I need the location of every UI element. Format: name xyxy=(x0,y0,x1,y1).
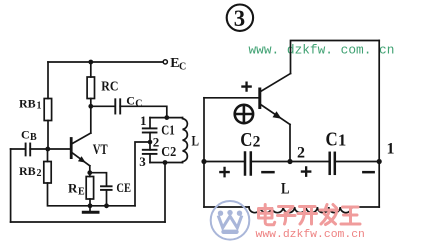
node 1 junction xyxy=(377,159,382,164)
base bar xyxy=(258,89,261,108)
label CE xyxy=(116,180,131,195)
emitter diagonal xyxy=(72,153,90,166)
collector diagonal xyxy=(261,74,291,92)
wire RB1 top lead xyxy=(47,62,49,99)
wire bottom outer riser to tank xyxy=(164,163,166,223)
svg-text:C2: C2 xyxy=(161,145,176,160)
svg-text:C: C xyxy=(126,94,135,108)
svg-text:R: R xyxy=(68,181,78,196)
label EC xyxy=(170,56,186,73)
collector diagonal xyxy=(72,133,91,144)
svg-text:L: L xyxy=(192,133,200,149)
char kai xyxy=(298,207,317,225)
capacitor CC xyxy=(115,99,120,113)
svg-text:3: 3 xyxy=(234,6,245,31)
svg-text:2: 2 xyxy=(253,133,261,150)
wire top supply rail (left circuit) xyxy=(48,61,163,63)
wire cap row left xyxy=(204,161,244,163)
marker circled 3 xyxy=(227,5,253,31)
wire stack top lead xyxy=(149,118,151,128)
label - polarity C1 right xyxy=(362,171,375,174)
svg-text:1: 1 xyxy=(338,131,346,150)
label C1 (right) xyxy=(326,129,347,151)
node 2 junction xyxy=(287,159,292,164)
node junction row left xyxy=(201,159,206,164)
svg-text:C: C xyxy=(179,62,186,73)
capacitor C1 (left tank) xyxy=(143,128,157,132)
wire RB2 bottom lead xyxy=(48,183,136,206)
wire CB left lead to left edge xyxy=(11,148,26,150)
node junction top rail / RC xyxy=(88,60,93,65)
svg-text:C: C xyxy=(326,129,338,151)
inductor L (right) xyxy=(249,207,352,213)
svg-text:C: C xyxy=(21,128,30,142)
svg-text:1: 1 xyxy=(140,113,147,128)
wire stack bottom lead xyxy=(149,154,151,163)
resistor RE xyxy=(86,177,93,200)
resistor RC xyxy=(87,77,94,99)
label 3 (left tank) xyxy=(139,154,146,169)
label C1 (left tank) xyxy=(161,124,175,139)
wire inductor row right xyxy=(352,206,380,208)
wire top rail (right circuit) xyxy=(291,41,380,74)
transistor (right) xyxy=(260,74,291,162)
label L (right) xyxy=(281,180,290,197)
wire tank top xyxy=(150,117,183,119)
svg-text:www.dzkfw.com.cn: www.dzkfw.com.cn xyxy=(256,229,365,241)
char zi xyxy=(278,207,296,225)
label RB1 xyxy=(19,97,42,112)
label RE xyxy=(68,181,85,198)
svg-text:2: 2 xyxy=(37,168,42,179)
svg-text:RB: RB xyxy=(19,97,36,111)
symbol circled plus xyxy=(235,105,253,123)
emitter diagonal xyxy=(261,105,290,125)
node junction RE bottom xyxy=(88,203,93,208)
label 1 (right) xyxy=(387,141,395,158)
label CB xyxy=(21,128,37,144)
capacitor C2 (right) xyxy=(245,153,251,175)
label RB2 xyxy=(19,164,42,179)
wire RC bottom / collector lead xyxy=(90,99,92,134)
capacitor C1 (right) xyxy=(330,153,335,174)
svg-text:1: 1 xyxy=(387,141,395,158)
wire cap row middle xyxy=(251,161,330,163)
watermark red chinese characters xyxy=(259,205,361,225)
svg-text:C: C xyxy=(240,129,252,151)
node junction CE bottom xyxy=(104,203,109,208)
svg-text:B: B xyxy=(30,132,37,143)
label C2 (left tank) xyxy=(161,145,176,160)
node junction collector/CC xyxy=(88,104,93,109)
label + polarity C2 left xyxy=(219,167,230,178)
wire RC top lead xyxy=(90,62,92,77)
wire CB right lead / base row xyxy=(30,148,70,150)
label CC xyxy=(126,94,142,110)
wire right edge (right circuit) xyxy=(378,41,380,208)
label C2 (right) xyxy=(240,129,260,151)
svg-text:www. dzkfw. com. cn: www. dzkfw. com. cn xyxy=(249,43,395,58)
wire RE bottom lead xyxy=(89,199,91,211)
wire inductor row left xyxy=(204,206,249,208)
capacitor CB xyxy=(26,144,31,156)
watermark W logo xyxy=(211,201,250,240)
label + at base xyxy=(241,82,252,92)
wire CC right lead to tank top xyxy=(120,106,167,117)
base bar xyxy=(70,139,73,158)
char wang xyxy=(341,207,360,224)
svg-text:1: 1 xyxy=(37,101,42,112)
label - polarity C2 right xyxy=(261,171,275,174)
svg-text:C1: C1 xyxy=(161,124,175,139)
label 1 (left tank) xyxy=(140,113,147,128)
svg-text:L: L xyxy=(281,180,290,197)
wire left edge down xyxy=(10,149,12,222)
node junction tank top xyxy=(164,115,169,120)
resistor RB1 xyxy=(44,99,51,121)
svg-text:C: C xyxy=(135,99,142,110)
resistor RB2 xyxy=(44,162,51,184)
wire cap row right xyxy=(335,161,379,163)
svg-text:3: 3 xyxy=(139,154,146,169)
svg-text:VT: VT xyxy=(93,142,108,158)
watermark red url xyxy=(256,229,365,241)
wire CE bottom lead xyxy=(106,190,108,206)
svg-text:2: 2 xyxy=(297,145,305,162)
emitter vertical lead xyxy=(289,125,291,162)
watermark green url xyxy=(249,43,395,58)
wire tank bottom xyxy=(150,162,183,164)
wire emitter to CE xyxy=(90,173,107,186)
node junction stack mid xyxy=(148,140,153,145)
wire stack middle xyxy=(149,133,151,150)
wire node2 tap xyxy=(135,142,150,206)
label 2 (right) xyxy=(297,145,305,162)
label L (left) xyxy=(192,133,200,149)
wire left edge (right circuit) xyxy=(203,98,205,207)
char dian xyxy=(259,205,275,225)
emitter arrow xyxy=(78,156,86,162)
ground xyxy=(83,211,98,214)
inductor L (left) xyxy=(183,118,188,163)
label VT xyxy=(93,142,108,158)
emitter arrow xyxy=(273,111,282,119)
node junction base/RB1/RB2 xyxy=(45,147,50,152)
svg-text:CE: CE xyxy=(116,180,131,195)
label + polarity C1 left xyxy=(301,166,312,177)
capacitor CE xyxy=(101,186,112,190)
capacitor C2 (left tank) xyxy=(143,150,157,154)
wire CC left lead xyxy=(91,105,115,107)
wire RB1 bottom lead xyxy=(47,121,49,150)
wire RB2 top lead xyxy=(47,149,49,162)
svg-text:RB: RB xyxy=(19,164,36,178)
wire bottom outer xyxy=(11,221,165,223)
svg-text:2: 2 xyxy=(153,134,160,149)
node junction emitter xyxy=(87,170,92,175)
label RC xyxy=(101,80,118,95)
svg-text:E: E xyxy=(78,187,85,198)
char fa xyxy=(320,205,338,225)
terminal EC open circle xyxy=(163,60,167,64)
label 2 (left tank) xyxy=(153,134,160,149)
node junction tank bottom xyxy=(163,160,168,165)
emitter vertical lead xyxy=(89,166,91,177)
svg-text:RC: RC xyxy=(101,80,118,95)
transistor VT xyxy=(71,133,91,177)
wire base lead (right) xyxy=(204,97,258,99)
